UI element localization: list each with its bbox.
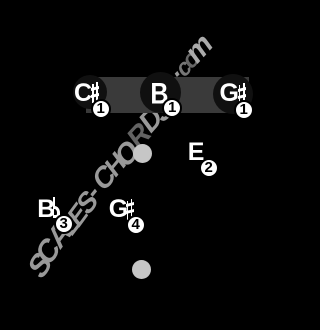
fret bar — [86, 77, 249, 113]
finger badge 1 on B — [162, 98, 182, 118]
fret marker dot lower — [132, 260, 151, 279]
note label C# — [74, 81, 92, 106]
sharp sign of G# fret1 — [238, 83, 246, 104]
note label Bb — [37, 197, 55, 222]
finger badge 3 on Bb — [54, 214, 74, 234]
finger badge 4 on G# — [126, 215, 146, 235]
note circle G# — [213, 74, 253, 114]
finger badge 2 on E — [199, 158, 219, 178]
note label G# (fret 1) — [220, 81, 239, 106]
watermark SCALES-CHORDS.com (curved, letter by letter) — [23, 246, 56, 285]
sharp sign of G# fret4 — [126, 199, 134, 220]
note label E — [188, 140, 205, 165]
fret marker dot upper — [133, 144, 152, 163]
flat sign of Bb — [53, 197, 62, 219]
note label G# (fret 4) — [109, 197, 128, 222]
finger badge 1 on G# — [234, 100, 254, 120]
finger badge 1 on C# — [91, 99, 111, 119]
sharp sign of C# — [91, 82, 99, 103]
note label B — [150, 80, 168, 110]
note circle B — [140, 72, 181, 113]
note circle C# — [73, 75, 107, 109]
